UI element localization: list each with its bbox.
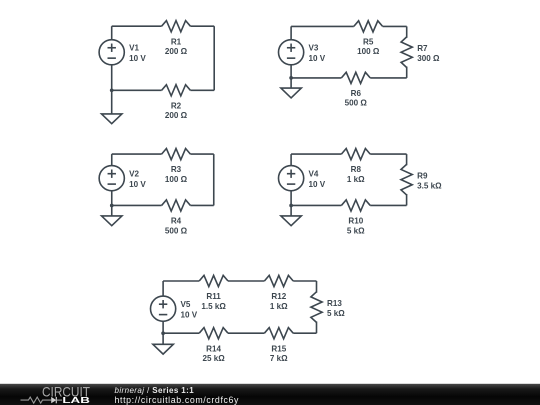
- svg-text:7 kΩ: 7 kΩ: [270, 354, 288, 363]
- wire: [316, 322, 318, 334]
- svg-text:R9: R9: [417, 171, 428, 180]
- svg-text:1.5 kΩ: 1.5 kΩ: [201, 302, 226, 311]
- wire: [406, 194, 408, 205]
- svg-text:500 Ω: 500 Ω: [345, 99, 368, 108]
- logo resistor symbol: [21, 397, 52, 403]
- wire: [228, 332, 264, 334]
- wire: [112, 25, 162, 27]
- svg-text:25 kΩ: 25 kΩ: [202, 354, 225, 363]
- svg-text:10 V: 10 V: [309, 180, 326, 189]
- resistor R7: [401, 37, 412, 68]
- svg-text:5 kΩ: 5 kΩ: [327, 309, 345, 318]
- ground: [102, 205, 122, 225]
- svg-text:http://circuitlab.com/crdfc6y: http://circuitlab.com/crdfc6y: [115, 395, 240, 405]
- svg-text:R8: R8: [351, 165, 362, 174]
- svg-text:birneraj / Series 1:1: birneraj / Series 1:1: [115, 386, 195, 395]
- logo diode symbol: [51, 397, 56, 403]
- wire: [290, 154, 292, 166]
- wire: [162, 281, 164, 296]
- svg-text:R14: R14: [206, 344, 221, 353]
- resistor R11: [199, 275, 228, 286]
- wire: [190, 153, 213, 155]
- resistor R4: [162, 200, 191, 211]
- svg-text:R10: R10: [348, 217, 363, 226]
- wire: [291, 204, 341, 206]
- svg-text:V1: V1: [129, 43, 139, 52]
- wire: [213, 154, 215, 205]
- svg-text:200 Ω: 200 Ω: [165, 47, 188, 56]
- svg-text:10 V: 10 V: [129, 54, 146, 63]
- resistor R2: [162, 85, 191, 96]
- junction dot: [110, 204, 114, 208]
- svg-text:R2: R2: [171, 101, 182, 110]
- junction dot: [289, 204, 293, 208]
- svg-text:R12: R12: [271, 292, 286, 301]
- voltage source V4: [279, 166, 304, 191]
- wire: [112, 153, 162, 155]
- wire: [293, 280, 316, 282]
- wire: [406, 67, 408, 78]
- wire: [162, 321, 164, 333]
- wire: [291, 77, 341, 79]
- wire: [290, 191, 292, 206]
- wire: [370, 77, 407, 79]
- svg-text:10 V: 10 V: [309, 54, 326, 63]
- resistor R10: [341, 200, 370, 211]
- ground: [102, 90, 122, 123]
- resistor R12: [264, 275, 293, 286]
- ground: [153, 333, 173, 354]
- resistor R3: [162, 149, 191, 160]
- wire: [370, 153, 406, 155]
- svg-text:10 V: 10 V: [129, 180, 146, 189]
- wire: [406, 26, 408, 37]
- wire: [293, 332, 316, 334]
- voltage source V5: [151, 296, 176, 321]
- svg-text:V2: V2: [129, 169, 139, 178]
- wire: [163, 280, 199, 282]
- wire: [111, 154, 113, 166]
- resistor R8: [341, 149, 370, 160]
- wire: [112, 89, 162, 91]
- svg-text:R11: R11: [206, 292, 221, 301]
- resistor R5: [354, 21, 383, 32]
- svg-text:1 kΩ: 1 kΩ: [270, 302, 288, 311]
- resistor R9: [401, 164, 412, 195]
- junction dot: [289, 76, 293, 80]
- svg-text:V5: V5: [181, 300, 191, 309]
- wire: [291, 153, 341, 155]
- wire: [190, 204, 213, 206]
- svg-text:V3: V3: [309, 43, 319, 52]
- wire: [290, 26, 292, 39]
- resistor R13: [311, 292, 322, 323]
- svg-text:R1: R1: [171, 37, 182, 46]
- wire: [111, 26, 113, 39]
- resistor R1: [162, 21, 191, 32]
- svg-text:100 Ω: 100 Ω: [357, 47, 380, 56]
- wire: [163, 332, 199, 334]
- svg-text:100 Ω: 100 Ω: [165, 175, 188, 184]
- wire: [190, 89, 214, 91]
- svg-text:V4: V4: [309, 169, 319, 178]
- svg-text:R13: R13: [327, 299, 342, 308]
- svg-text:R6: R6: [351, 89, 362, 98]
- wire: [190, 25, 214, 27]
- svg-text:R15: R15: [271, 344, 286, 353]
- svg-text:1 kΩ: 1 kΩ: [347, 175, 365, 184]
- voltage source V1: [99, 40, 124, 65]
- svg-text:200 Ω: 200 Ω: [165, 111, 188, 120]
- resistor R15: [264, 328, 293, 339]
- wire: [228, 280, 264, 282]
- junction dot: [161, 331, 165, 335]
- svg-text:R5: R5: [363, 38, 374, 47]
- svg-text:3.5 kΩ: 3.5 kΩ: [417, 182, 442, 191]
- wire: [290, 65, 292, 78]
- footer bar: [0, 384, 540, 405]
- wire: [316, 281, 318, 293]
- wire: [370, 204, 406, 206]
- svg-text:300 Ω: 300 Ω: [417, 54, 440, 63]
- wire: [112, 204, 162, 206]
- wire: [383, 25, 407, 27]
- svg-text:R3: R3: [171, 165, 182, 174]
- ground: [281, 205, 301, 225]
- svg-text:LAB: LAB: [62, 395, 90, 405]
- wire: [291, 25, 354, 27]
- junction dot: [110, 88, 114, 92]
- voltage source V3: [279, 40, 304, 65]
- svg-text:5 kΩ: 5 kΩ: [347, 226, 365, 235]
- resistor R6: [341, 72, 370, 83]
- svg-text:R4: R4: [171, 217, 182, 226]
- ground: [281, 78, 301, 98]
- wire: [111, 65, 113, 90]
- voltage source V2: [99, 166, 124, 191]
- svg-text:10 V: 10 V: [181, 310, 198, 319]
- svg-text:500 Ω: 500 Ω: [165, 226, 188, 235]
- resistor R14: [199, 328, 228, 339]
- wire: [406, 154, 408, 165]
- wire: [111, 191, 113, 206]
- svg-text:R7: R7: [417, 44, 428, 53]
- wire: [213, 26, 215, 90]
